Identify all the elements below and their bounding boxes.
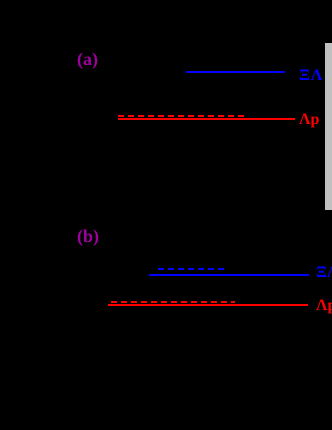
svg-text:Λp: Λp: [299, 111, 319, 128]
level line Lambda-p (b) dashed red: [111, 301, 235, 303]
svg-text:(a): (a): [77, 49, 98, 69]
level line XiLambda (b) dashed blue: [158, 268, 227, 270]
svg-text:ΞΛ: ΞΛ: [316, 264, 332, 281]
svg-text:ΞΛ: ΞΛ: [299, 67, 323, 84]
svg-text:(b): (b): [77, 226, 99, 246]
svg-text:Λp: Λp: [316, 297, 332, 314]
level line Lambda-p (a) dashed red: [118, 115, 247, 117]
scrollbar thumb (gray bar): [325, 43, 332, 210]
level line XiLambda (a) solid blue: [186, 71, 285, 73]
level line Lambda-p (b) solid red: [108, 304, 308, 306]
level line Lambda-p (a) solid red: [118, 118, 295, 120]
level line XiLambda (b) solid blue: [149, 274, 309, 276]
